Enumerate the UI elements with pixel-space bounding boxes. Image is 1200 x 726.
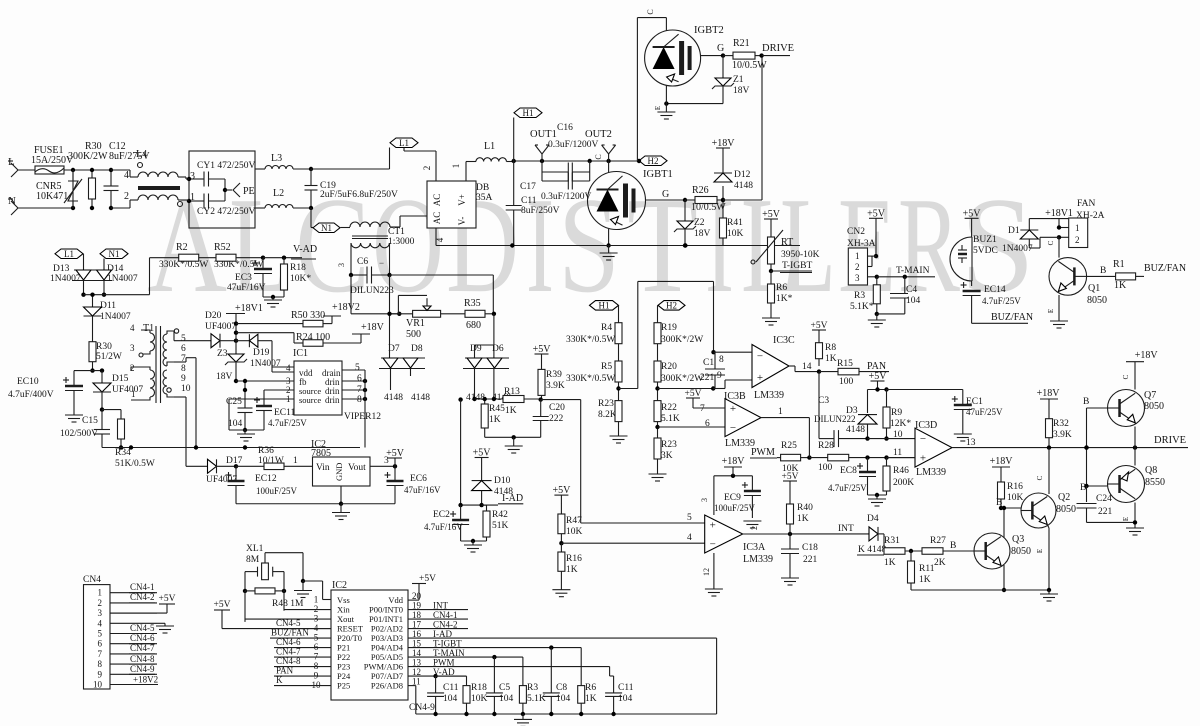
svg-text:1: 1 — [293, 456, 298, 466]
wire pin11 row — [408, 686, 416, 714]
wire — [458, 397, 498, 507]
capacitor EC8 4.7uF/25V — [828, 458, 876, 495]
wire IC3D out — [952, 438, 1000, 448]
svg-text:R35: R35 — [464, 298, 481, 309]
diode D14 1N4007 — [97, 264, 138, 284]
svg-text:R18: R18 — [290, 263, 306, 273]
svg-text:B: B — [1083, 397, 1089, 407]
svg-text:10K: 10K — [727, 229, 744, 239]
svg-text:9: 9 — [98, 669, 103, 679]
svg-text:EC10: EC10 — [17, 377, 39, 387]
svg-text:R41: R41 — [727, 218, 743, 228]
svg-text:+18V2: +18V2 — [332, 302, 360, 313]
resistor R42 51K — [482, 505, 509, 541]
svg-text:+5V: +5V — [473, 448, 492, 459]
diode D1 1N4007 — [1002, 219, 1059, 254]
svg-text:CN4-7: CN4-7 — [276, 647, 301, 657]
svg-text:Vss: Vss — [337, 595, 350, 605]
svg-text:10K: 10K — [1007, 493, 1024, 503]
svg-text:V-AD: V-AD — [293, 244, 317, 255]
svg-text:7: 7 — [700, 404, 705, 414]
wire gate IGBT1 — [646, 189, 688, 202]
resistor R13 1K — [475, 387, 543, 416]
power +5V CN4 pin3 — [159, 594, 176, 613]
svg-text:17: 17 — [412, 619, 422, 629]
capacitor EC11 4.7uF/25V — [254, 397, 307, 430]
svg-text:100: 100 — [839, 377, 854, 387]
resistor R41 10K — [720, 200, 744, 246]
svg-text:+5V: +5V — [963, 208, 982, 219]
capacitor EC9 100uF/25V — [714, 476, 761, 530]
wire — [71, 168, 75, 210]
zener Z2 18V — [674, 200, 711, 248]
diode D10 4148 — [472, 466, 514, 506]
svg-text:CN4-8: CN4-8 — [276, 656, 301, 666]
svg-text:PWM: PWM — [751, 447, 775, 458]
svg-text:2: 2 — [422, 166, 432, 171]
svg-text:R40: R40 — [797, 503, 813, 513]
ground — [600, 246, 618, 261]
svg-text:R45: R45 — [489, 404, 505, 414]
wire Xout row — [245, 618, 331, 620]
svg-text:330K*/0.5W: 330K*/0.5W — [566, 374, 615, 384]
svg-text:LM339: LM339 — [754, 390, 784, 401]
svg-text:+: + — [730, 403, 736, 415]
svg-text:1N4007: 1N4007 — [100, 312, 131, 322]
wire pin6 — [658, 426, 726, 428]
wire — [485, 435, 541, 446]
svg-text:R16: R16 — [1007, 482, 1023, 492]
svg-text:L2: L2 — [273, 188, 284, 199]
resistor R23b 3K — [654, 438, 677, 474]
svg-text:R6: R6 — [585, 683, 596, 693]
resistor R30b 51/2W — [89, 342, 122, 373]
wire INT row — [408, 609, 468, 611]
ground — [65, 415, 83, 422]
resistor R50 330 — [236, 310, 332, 327]
capacitor C4 104 — [877, 277, 921, 314]
svg-text:H2: H2 — [666, 300, 677, 310]
opamp IC3A LM339 — [700, 474, 773, 589]
svg-text:L1: L1 — [64, 249, 74, 259]
svg-text:P02/AD2: P02/AD2 — [371, 624, 403, 634]
igbt IGBT2 — [637, 9, 723, 161]
wire — [311, 168, 390, 170]
zener Z1 18V — [712, 56, 750, 104]
wire — [868, 387, 963, 413]
wire V-AD row — [408, 674, 467, 678]
svg-text:VIPER12: VIPER12 — [344, 412, 381, 422]
svg-text:C11: C11 — [443, 683, 459, 693]
svg-text:8: 8 — [357, 395, 362, 405]
wire Q8 base — [1080, 483, 1108, 502]
svg-text:6: 6 — [357, 374, 362, 384]
capacitor C11 bottom1 — [427, 683, 459, 714]
wire Xin — [283, 591, 285, 611]
svg-text:R28: R28 — [818, 441, 834, 451]
svg-text:+18V: +18V — [990, 456, 1014, 467]
svg-text:EC14: EC14 — [984, 285, 1006, 295]
svg-text:K: K — [276, 675, 283, 685]
igbt IGBT1 — [588, 161, 673, 230]
svg-text:CY2 472/250V: CY2 472/250V — [197, 207, 255, 217]
svg-text:1K: 1K — [566, 565, 578, 575]
label CN4-5 — [129, 623, 155, 634]
resistor R30 300K/2W — [68, 141, 108, 210]
resistor R39 3.9K — [533, 344, 565, 400]
svg-text:19: 19 — [412, 600, 422, 610]
svg-text:DB: DB — [476, 183, 489, 193]
svg-text:FAN: FAN — [1077, 199, 1095, 209]
svg-text:2: 2 — [124, 191, 129, 202]
svg-text:PAN: PAN — [867, 361, 886, 372]
earth PE — [223, 183, 255, 197]
svg-text:10/0.5W: 10/0.5W — [732, 60, 767, 71]
diode pair D9 D6 4148 — [463, 344, 511, 403]
svg-text:14: 14 — [802, 362, 812, 372]
svg-text:+5V: +5V — [386, 448, 405, 459]
svg-text:EC2: EC2 — [433, 510, 450, 520]
box CY filter — [189, 151, 255, 228]
power +18V1 flag — [226, 303, 263, 341]
resistor R28 100 — [809, 441, 915, 473]
wire crystal top — [265, 553, 331, 600]
node H2 div — [658, 300, 686, 322]
svg-text:−: − — [379, 258, 384, 268]
svg-text:3.9K: 3.9K — [546, 381, 565, 391]
watermark — [147, 169, 1035, 321]
svg-text:R52: R52 — [214, 242, 231, 253]
wire — [1047, 295, 1059, 321]
wire — [229, 399, 264, 430]
svg-text:C16: C16 — [557, 123, 573, 133]
svg-text:L4: L4 — [136, 149, 147, 160]
svg-text:2K: 2K — [934, 558, 946, 568]
wire IC1 pins — [229, 367, 367, 448]
svg-text:I-AD: I-AD — [502, 493, 523, 504]
wire Xout node — [244, 591, 246, 622]
ground — [610, 436, 628, 443]
svg-text:CN4-5: CN4-5 — [130, 623, 155, 633]
svg-text:UF4007: UF4007 — [112, 385, 143, 395]
svg-text:V+: V+ — [457, 194, 467, 206]
connector OUT1 — [530, 129, 557, 161]
power +18V1 flag FAN — [1045, 208, 1073, 228]
wire — [111, 170, 130, 208]
capacitor C18 221 — [781, 534, 818, 578]
svg-text:CN4-2: CN4-2 — [433, 619, 458, 629]
diode D20 UF4007 — [205, 311, 238, 348]
opamp IC3B LM339 — [685, 389, 810, 449]
svg-text:R15: R15 — [837, 359, 853, 369]
svg-text:3: 3 — [337, 263, 346, 267]
wire bottom rail — [416, 638, 717, 716]
svg-text:N1: N1 — [321, 223, 332, 233]
resistor R27 2K — [922, 536, 974, 568]
wire CN4-2 row — [408, 628, 468, 630]
svg-text:R9: R9 — [891, 408, 902, 418]
svg-text:5: 5 — [181, 334, 186, 344]
svg-text:OUT2: OUT2 — [585, 129, 612, 140]
svg-text:+5V: +5V — [869, 371, 888, 382]
wire — [263, 295, 284, 300]
power +5V flag BUZ — [963, 208, 982, 219]
svg-text:Z1: Z1 — [733, 75, 744, 85]
svg-text:P00/INT0: P00/INT0 — [369, 605, 403, 615]
svg-text:R5: R5 — [601, 362, 612, 372]
svg-text:G: G — [662, 189, 669, 200]
capacitor C11 bottom2 — [605, 667, 634, 714]
svg-text:11: 11 — [412, 676, 421, 686]
resistor R5 330K*/0.5W — [566, 361, 622, 401]
svg-text:R8: R8 — [825, 343, 836, 353]
svg-text:C11: C11 — [521, 196, 537, 206]
svg-text:13: 13 — [966, 438, 976, 448]
svg-text:R18: R18 — [471, 683, 487, 693]
ground — [649, 474, 667, 481]
svg-text:CT1: CT1 — [388, 227, 405, 237]
svg-text:12: 12 — [702, 568, 711, 576]
svg-text:3: 3 — [700, 498, 709, 502]
svg-text:8uF/250V: 8uF/250V — [521, 206, 560, 216]
svg-text:47uF/25V: 47uF/25V — [966, 407, 1003, 417]
wire bottom bus — [436, 243, 800, 247]
svg-text:+18V1: +18V1 — [235, 303, 263, 314]
resistor R8 1K — [816, 335, 837, 366]
svg-text:5: 5 — [687, 513, 692, 523]
svg-text:1:3000: 1:3000 — [388, 237, 415, 247]
svg-text:500: 500 — [406, 329, 421, 340]
capacitor C15 102/500V — [60, 410, 110, 448]
svg-text:R6: R6 — [776, 283, 787, 293]
wire Xin row — [284, 609, 331, 611]
wire pin5 — [541, 400, 705, 523]
power +5V flag — [386, 448, 405, 466]
svg-text:VR1: VR1 — [406, 318, 425, 329]
svg-text:R47: R47 — [566, 516, 582, 526]
resistor R2 330K*/0.5W — [150, 242, 217, 270]
svg-text:2: 2 — [855, 262, 860, 272]
svg-text:5.1K: 5.1K — [527, 694, 546, 704]
svg-text:8: 8 — [719, 355, 724, 365]
svg-text:E: E — [654, 106, 662, 110]
power +5V flag CN2 — [867, 208, 886, 219]
capacitor CY1 472/250V — [187, 161, 256, 187]
svg-text:300K*/2W: 300K*/2W — [661, 374, 703, 384]
label CN4-7 row — [274, 647, 331, 658]
svg-text:10: 10 — [93, 680, 103, 690]
svg-text:G: G — [717, 43, 724, 54]
svg-text:P20/T0: P20/T0 — [337, 633, 362, 643]
capacitor C3 DILUN222 — [814, 372, 870, 448]
svg-text:+18V: +18V — [712, 138, 736, 149]
wire Q8 emitter — [1134, 448, 1136, 466]
wire — [1122, 503, 1137, 529]
svg-text:1: 1 — [451, 164, 461, 169]
svg-text:3: 3 — [98, 608, 103, 618]
capacitor EC6 47uF/16V — [385, 466, 442, 503]
svg-text:5: 5 — [355, 363, 360, 373]
svg-text:+5V: +5V — [533, 344, 552, 355]
svg-text:CN4-6: CN4-6 — [130, 633, 155, 643]
svg-text:C15: C15 — [82, 416, 98, 426]
ground — [868, 499, 886, 506]
ground — [237, 430, 255, 441]
resistor R20 300K*/2W — [654, 361, 703, 401]
svg-text:3950-10K: 3950-10K — [781, 250, 820, 260]
svg-text:+5V: +5V — [762, 209, 781, 220]
svg-text:C5: C5 — [499, 683, 510, 693]
svg-text:104: 104 — [228, 419, 243, 429]
svg-text:CN2: CN2 — [847, 227, 865, 237]
svg-text:DRIVE: DRIVE — [1154, 435, 1186, 446]
diode D4 K 4148 — [790, 514, 886, 555]
ground crystal — [294, 591, 312, 598]
svg-text:P26/AD8: P26/AD8 — [371, 681, 403, 691]
resistor R47 10K — [552, 485, 582, 545]
svg-text:R25: R25 — [781, 441, 797, 451]
svg-text:P25: P25 — [337, 681, 350, 691]
ground — [464, 545, 482, 552]
svg-text:1: 1 — [1075, 223, 1080, 233]
svg-text:AC: AC — [432, 194, 442, 207]
svg-text:1K: 1K — [489, 415, 501, 425]
diode D13 1N4007 — [50, 264, 112, 284]
svg-text:R48 1M: R48 1M — [272, 599, 304, 609]
svg-text:P05/AD5: P05/AD5 — [371, 652, 403, 662]
svg-text:R1: R1 — [1113, 259, 1125, 270]
svg-text:8: 8 — [98, 659, 103, 669]
svg-text:R23: R23 — [661, 440, 677, 450]
svg-text:RT: RT — [781, 237, 793, 248]
resistor R16b 10K — [990, 456, 1024, 510]
ground bottom — [514, 714, 532, 726]
svg-text:BUZ/FAN: BUZ/FAN — [991, 312, 1033, 323]
capacitor EC10 4.7uF/400V — [8, 371, 83, 415]
label PAN — [867, 361, 886, 372]
svg-text:15: 15 — [412, 638, 422, 648]
svg-text:221: 221 — [1098, 507, 1113, 517]
capacitor C17 — [520, 172, 592, 202]
capacitor EC2 4.7uF/16V — [424, 505, 469, 541]
ground — [1126, 528, 1144, 535]
mcu IC2 box — [312, 580, 409, 700]
svg-text:104: 104 — [906, 296, 921, 306]
label PAN row — [274, 666, 331, 677]
svg-text:100uF/25V: 100uF/25V — [256, 486, 298, 496]
svg-text:4.7uF/16V: 4.7uF/16V — [424, 522, 463, 532]
svg-text:R19: R19 — [661, 323, 677, 333]
wire T1 pin7 — [174, 358, 198, 450]
svg-text:4: 4 — [124, 170, 129, 181]
resistor R15 100 — [819, 359, 889, 387]
power +5V flag Vdd — [408, 574, 436, 600]
ground — [657, 112, 675, 119]
svg-text:Vin: Vin — [316, 463, 330, 473]
ground — [762, 318, 780, 325]
svg-text:P04/AD4: P04/AD4 — [371, 643, 404, 653]
svg-text:1: 1 — [855, 251, 860, 261]
wire — [339, 486, 395, 506]
wire T-IGBT drops — [551, 648, 581, 693]
svg-text:BUZ1: BUZ1 — [973, 235, 997, 245]
svg-text:LM339: LM339 — [743, 554, 773, 565]
svg-text:D4: D4 — [867, 514, 879, 524]
wire T-IGBT row — [408, 645, 581, 649]
svg-text:8050: 8050 — [1087, 295, 1107, 306]
svg-text:2: 2 — [98, 598, 103, 608]
diode D11 1N4007 — [84, 293, 131, 342]
svg-text:R34: R34 — [115, 448, 131, 458]
ground — [743, 521, 761, 528]
svg-text:35A: 35A — [476, 193, 493, 203]
mcu right pin labels — [412, 591, 465, 687]
power +18V flag2 — [352, 322, 385, 334]
svg-text:2: 2 — [1075, 235, 1080, 245]
svg-text:PE: PE — [243, 186, 255, 197]
svg-text:B: B — [996, 498, 1002, 508]
svg-text:2uF/5uF6.8uF/250V: 2uF/5uF6.8uF/250V — [320, 190, 398, 200]
svg-text:V-: V- — [457, 217, 467, 226]
wire T1 pin6 — [174, 397, 186, 466]
svg-text:330K*/0.5W: 330K*/0.5W — [566, 335, 615, 345]
svg-text:CN4-7: CN4-7 — [130, 643, 155, 653]
svg-text:200K: 200K — [893, 478, 914, 488]
wire — [435, 228, 445, 246]
svg-text:CN4-8: CN4-8 — [130, 654, 155, 664]
node L input — [8, 156, 35, 177]
svg-text:16: 16 — [412, 629, 422, 639]
node H1 flag — [514, 108, 542, 161]
diode D3 4148 — [846, 406, 877, 439]
label CN4-9 — [129, 664, 155, 674]
svg-text:+5V: +5V — [867, 208, 886, 219]
svg-text:4: 4 — [687, 533, 692, 543]
resistor R9 12K* — [883, 407, 911, 441]
svg-text:EC3: EC3 — [235, 273, 252, 283]
svg-text:Q7: Q7 — [1144, 390, 1156, 401]
svg-text:H1: H1 — [523, 108, 534, 118]
svg-text:8050: 8050 — [1144, 401, 1164, 412]
capacitor C6 DILUN223 — [337, 257, 394, 296]
svg-text:R31: R31 — [884, 536, 900, 546]
ground — [264, 300, 282, 307]
svg-text:H1: H1 — [599, 300, 610, 310]
svg-text:4: 4 — [286, 363, 291, 373]
svg-text:CN4-1: CN4-1 — [433, 610, 458, 620]
svg-text:C25: C25 — [226, 397, 242, 407]
svg-text:PWM/AD6: PWM/AD6 — [364, 662, 403, 672]
thermistor RT 3950-10K — [751, 227, 820, 273]
resistor R23 8.2K* — [598, 399, 622, 436]
capacitor C8 104 — [543, 683, 571, 714]
svg-text:INT: INT — [433, 600, 448, 610]
svg-text:4148: 4148 — [734, 181, 753, 191]
svg-text:+5V: +5V — [159, 594, 176, 604]
wire — [658, 380, 753, 391]
node H1 div — [590, 300, 619, 322]
svg-text:680: 680 — [466, 320, 481, 331]
svg-text:+5V: +5V — [552, 485, 571, 496]
svg-text:51K/0.5W: 51K/0.5W — [115, 459, 155, 469]
svg-text:3.9K: 3.9K — [1053, 430, 1072, 440]
ground — [1050, 321, 1068, 328]
power +5V flag R8 — [811, 321, 828, 335]
wire drive bus — [1000, 435, 1188, 450]
power +18V2 CN4 pin10 — [110, 675, 158, 685]
svg-text:INT: INT — [838, 524, 854, 534]
svg-text:104: 104 — [556, 694, 571, 704]
